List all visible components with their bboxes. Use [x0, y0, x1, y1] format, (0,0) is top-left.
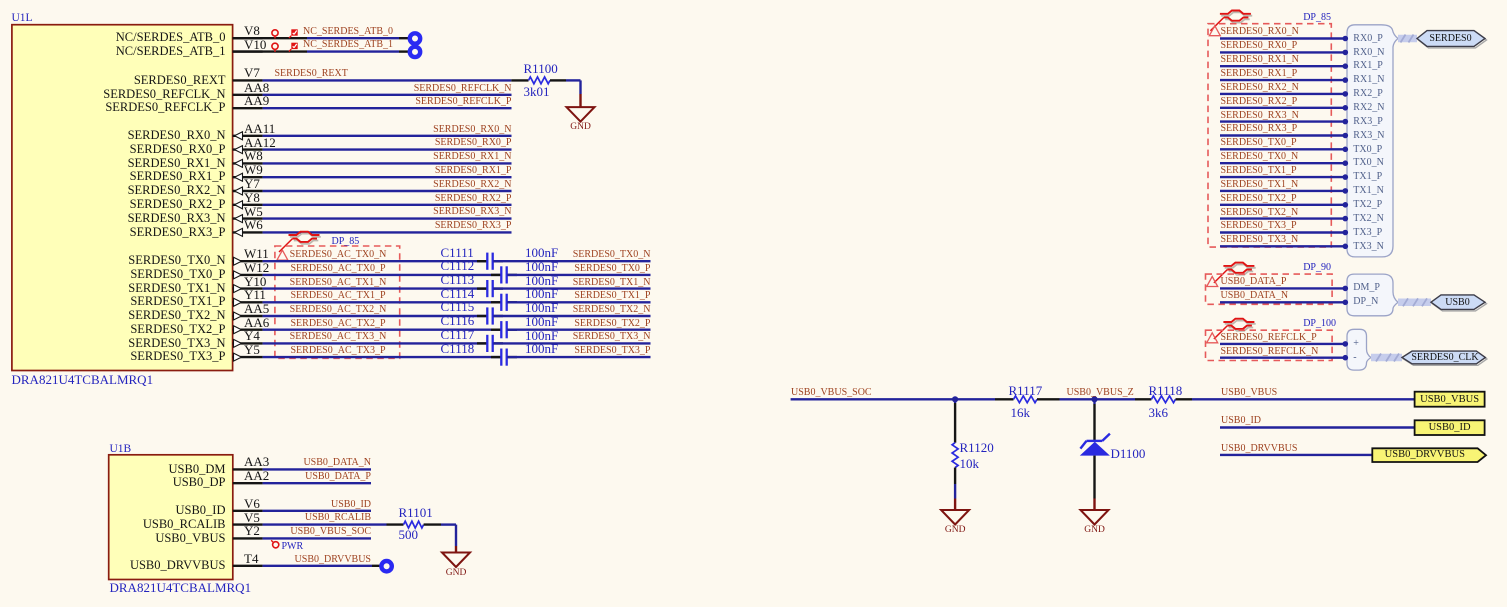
pin label USB0_DM (U1B) — [120, 463, 226, 476]
connector label SERDES0 — [1427, 34, 1474, 44]
wire SERDES0_TX0_N — [493, 260, 650, 262]
ground GND (R1100) — [567, 94, 595, 122]
net label SERDES0_RX3_P — [312, 221, 512, 231]
harness entry RX2_P — [1353, 89, 1382, 99]
harness entry TX1_N — [1353, 186, 1384, 196]
harness entry TX2_N — [1353, 214, 1384, 224]
differential-pair directive icon (DP_90) — [1214, 263, 1256, 283]
pin W12 (SERDES0_TX0_P) of U1L — [233, 271, 263, 279]
net label SERDES0_AC_TX0_P — [290, 264, 387, 274]
designator C1117 — [441, 328, 475, 341]
net label USB0_DATA_N (harness side) — [1221, 291, 1289, 301]
wire USB0_DATA_N — [263, 468, 371, 470]
pin number Y7 (U1L) — [244, 177, 260, 190]
wire SERDES0_RX0_N (to harness) — [1220, 36, 1348, 42]
designator C1112 — [441, 259, 475, 272]
pin number AA2 (U1B) — [244, 469, 269, 482]
pin T4 (USB0_DRVVBUS) of U1B — [233, 565, 263, 567]
pin label USB0_DRVVBUS (U1B) — [120, 559, 226, 572]
wire USB0_VBUS — [1192, 398, 1415, 400]
wire SERDES0_TX3_P (to harness) — [1220, 230, 1348, 236]
wire USB0_VBUS_Z — [1060, 398, 1136, 400]
pin number V6 (U1B) — [244, 497, 260, 510]
port USB0_DRVVBUS — [1372, 448, 1486, 462]
harness entry RX3_P — [1353, 117, 1382, 127]
resistor R1101 — [387, 521, 442, 528]
label GND (R1100) — [570, 123, 591, 133]
pin AA11 (SERDES0_RX0_N) of U1L — [233, 132, 263, 140]
pin label NC/SERDES_ATB_1 (U1L) — [55, 45, 226, 58]
pin AA8 (SERDES0_REFCLK_N) of U1L — [233, 94, 263, 96]
pin label SERDES0_TX3_P (U1L) — [55, 350, 226, 363]
IC U1B body — [109, 455, 233, 580]
wire USB0_VBUS_SOC (U1B) — [263, 537, 371, 539]
pin Y2 (USB0_VBUS) of U1B — [233, 537, 263, 539]
wire NC_SERDES_ATB_1 — [233, 50, 409, 52]
harness entry DP_N — [1353, 297, 1378, 307]
pin Y8 (SERDES0_RX2_P) of U1L — [233, 201, 263, 209]
wire USB0_DATA_N (to harness) — [1220, 300, 1348, 306]
pin label NC/SERDES_ATB_0 (U1L) — [55, 31, 226, 44]
wire USB0_ID (U1B) — [263, 510, 371, 512]
wire SERDES0_RX0_N — [263, 135, 512, 137]
net label SERDES0_TX3_N (harness side) — [1221, 235, 1299, 245]
capacitor C1111 — [477, 253, 503, 270]
parameter label PWR — [282, 542, 304, 552]
wire NC_SERDES_ATB_0 — [233, 37, 409, 39]
pin AA2 (USB0_DP) of U1B — [233, 482, 263, 484]
net label USB0_VBUS_SOC — [791, 388, 872, 398]
blanket box DP_85 (left) — [275, 246, 400, 358]
differential-pair directive icon (left DP_85) — [279, 232, 321, 252]
wire SERDES0_TX1_N (to harness) — [1220, 188, 1348, 194]
wire SERDES0_RX2_N — [263, 190, 512, 192]
pin label SERDES0_RX1_P (U1L) — [55, 170, 226, 183]
directive name DP_85 (left) — [332, 237, 360, 247]
net label SERDES0_TX1_P (harness side) — [1221, 166, 1297, 176]
value 16k (R1117) — [1011, 406, 1031, 419]
pin Y11 (SERDES0_TX1_P) of U1L — [233, 298, 263, 306]
harness entry TX0_N — [1353, 158, 1384, 168]
value 10k (R1120) — [960, 457, 980, 470]
harness entry RX1_N — [1353, 75, 1384, 85]
pin label SERDES0_TX0_P (U1L) — [55, 268, 226, 281]
blanket box DP_85 (right) — [1208, 24, 1331, 247]
designator U1L — [12, 13, 33, 25]
pin number AA12 (U1L) — [244, 136, 276, 149]
wire SERDES0_RX0_P (to harness) — [1220, 50, 1348, 56]
harness entry RX0_N — [1353, 48, 1384, 58]
wire SERDES0_REFCLK_N (to harness) — [1220, 355, 1348, 361]
pin label SERDES0_RX2_P (U1L) — [55, 198, 226, 211]
ground GND (D1100) — [1081, 499, 1109, 525]
differential-pair directive icon (DP_100) — [1214, 319, 1256, 339]
net label USB0_VBUS_SOC (U1B) — [171, 527, 371, 537]
wire SERDES0_AC_TX3_P — [263, 356, 501, 358]
harness connector SERDES0_CLK — [1402, 351, 1487, 365]
designator R1118 — [1149, 384, 1183, 397]
wire R1120 to GND — [954, 484, 956, 499]
no-ERC circle marker on NC_SERDES_ATB_1 — [272, 43, 278, 52]
junction node USB0_VBUS_Z/D1100 — [1091, 396, 1097, 402]
wire SERDES0_RX3_N — [263, 217, 512, 219]
wire SERDES0_TX2_P — [507, 329, 650, 331]
wire SERDES0_RX2_P (to harness) — [1220, 105, 1348, 111]
pin number W12 (U1L) — [244, 261, 269, 274]
designator U1B — [110, 444, 132, 456]
pin AA12 (SERDES0_RX0_P) of U1L — [233, 146, 263, 154]
designator C1115 — [441, 300, 475, 313]
no-connect marker on NC_SERDES_ATB_1 — [410, 47, 420, 57]
net label SERDES0_TX0_N — [451, 250, 651, 260]
net label SERDES0_TX3_N — [451, 332, 651, 342]
pin label SERDES0_REFCLK_N (U1L) — [55, 88, 226, 101]
harness entry TX1_P — [1353, 172, 1382, 182]
net label SERDES0_REFCLK_P (harness side) — [1221, 333, 1317, 343]
IC U1L body — [12, 25, 233, 371]
pin number Y5 (U1L) — [244, 343, 260, 356]
pin AA5 (SERDES0_TX2_N) of U1L — [233, 312, 263, 320]
wire SERDES0_RX3_P (to harness) — [1220, 133, 1348, 139]
designator R1117 — [1009, 384, 1043, 397]
net label SERDES0_REFCLK_N — [312, 84, 512, 94]
wire SERDES0_AC_TX0_N — [263, 260, 487, 262]
capacitor C1118 — [491, 349, 517, 366]
value 100nF (C1114) — [525, 287, 558, 300]
value 3k01 (R1100) — [524, 85, 550, 98]
pin label SERDES0_TX1_N (U1L) — [55, 282, 226, 295]
pin W5 (SERDES0_RX3_N) of U1L — [233, 215, 263, 223]
pin label SERDES0_REFCLK_P (U1L) — [55, 101, 226, 114]
wire SERDES0_REFCLK_P (to harness) — [1220, 341, 1348, 347]
port USB0_ID — [1415, 420, 1485, 435]
wire SERDES0_TX0_N (to harness) — [1220, 160, 1348, 166]
wire SERDES0_RX1_P — [263, 176, 512, 178]
pin label SERDES0_RX3_N (U1L) — [55, 212, 226, 225]
net label NC_SERDES_ATB_0 — [303, 27, 393, 37]
pin label SERDES0_RX0_N (U1L) — [55, 129, 226, 142]
pin label SERDES0_TX1_P (U1L) — [55, 295, 226, 308]
capacitor C1115 — [477, 307, 503, 324]
wire USB0_ID — [1220, 426, 1415, 428]
label GND (D1100) — [1084, 526, 1105, 536]
label GND (R1120) — [945, 526, 966, 536]
pin label USB0_VBUS (U1B) — [120, 532, 226, 545]
net label SERDES0_TX0_N (harness side) — [1221, 152, 1299, 162]
wire SERDES0_AC_TX2_N — [263, 315, 487, 317]
wire SERDES0_TX2_P (to harness) — [1220, 202, 1348, 208]
harness entry RX3_N — [1353, 131, 1384, 141]
net label SERDES0_RX0_P — [312, 138, 512, 148]
harness entry - — [1353, 353, 1356, 363]
pin AA6 (SERDES0_TX2_P) of U1L — [233, 326, 263, 334]
pin label SERDES0_RX1_N (U1L) — [55, 157, 226, 170]
pin V10 (NC/SERDES_ATB_1) of U1L — [233, 50, 263, 52]
net label SERDES0_TX0_P (harness side) — [1221, 138, 1297, 148]
pin W8 (SERDES0_RX1_N) of U1L — [233, 159, 263, 167]
diode D1100 (zener) — [1080, 399, 1110, 498]
signal harness body (SERDES0_CLK) — [1347, 329, 1371, 370]
wire SERDES0_TX0_P (to harness) — [1220, 147, 1348, 153]
wire SERDES0_AC_TX1_P — [263, 301, 501, 303]
wire SERDES0_TX1_P (to harness) — [1220, 174, 1348, 180]
net label USB0_ID — [1221, 416, 1261, 426]
net label SERDES0_AC_TX1_N — [290, 278, 387, 288]
no-connect marker on NC_SERDES_ATB_0 — [410, 33, 420, 43]
pin Y10 (SERDES0_TX1_N) of U1L — [233, 285, 263, 293]
connector label USB0 — [1441, 298, 1474, 308]
triangle marker DP_85 (left) — [277, 250, 288, 260]
pin number Y4 (U1L) — [244, 329, 260, 342]
net label SERDES0_TX1_P — [451, 291, 651, 301]
wire SERDES0_AC_TX3_N — [263, 342, 487, 344]
value 100nF (C1117) — [525, 329, 558, 342]
pin number AA5 (U1L) — [244, 302, 269, 315]
net label USB0_VBUS_Z — [1067, 388, 1134, 398]
triangle marker DP_85 (right) — [1209, 26, 1220, 36]
net label SERDES0_TX2_P — [451, 319, 651, 329]
value 100nF (C1112) — [525, 260, 558, 273]
net label SERDES0_AC_TX0_N — [290, 250, 387, 260]
net label SERDES0_REFCLK_N (harness side) — [1221, 347, 1319, 357]
pin V5 (USB0_RCALIB) of U1B — [233, 523, 263, 525]
pin label SERDES0_RX0_P (U1L) — [55, 143, 226, 156]
harness entry RX1_P — [1353, 61, 1382, 71]
pin label SERDES0_TX2_N (U1L) — [55, 309, 226, 322]
no-ERC circle marker on NC_SERDES_ATB_0 — [272, 30, 278, 39]
resistor R1117 — [995, 396, 1060, 403]
triangle marker DP_100 — [1207, 333, 1218, 343]
pin Y7 (SERDES0_RX2_N) of U1L — [233, 187, 263, 195]
capacitor C1113 — [477, 280, 503, 297]
net label SERDES0_REFCLK_P — [312, 97, 512, 107]
wire SERDES0_TX1_N — [493, 287, 650, 289]
designator C1111 — [441, 246, 474, 259]
pin number V5 (U1B) — [244, 511, 260, 524]
value 100nF (C1111) — [525, 246, 558, 259]
net label SERDES0_RX2_N — [312, 180, 512, 190]
label GND (R1101) — [446, 569, 467, 579]
port label USB0_ID — [1415, 423, 1485, 434]
pin number Y11 (U1L) — [244, 288, 266, 301]
wire R1100 to GND — [566, 80, 581, 94]
net label SERDES0_RX3_P (harness side) — [1221, 124, 1298, 134]
harness entry RX0_P — [1353, 34, 1382, 44]
pin number AA6 (U1L) — [244, 316, 269, 329]
junction node USB0_VBUS_SOC/R1120 — [952, 396, 958, 402]
wire SERDES0_RX3_N (to harness) — [1220, 119, 1348, 125]
pin label SERDES0_TX3_N (U1L) — [55, 337, 226, 350]
signal harness body (SERDES0) — [1347, 25, 1398, 257]
wire SERDES0_TX3_N (to harness) — [1220, 244, 1348, 250]
directive name DP_85 (right) — [1303, 13, 1331, 23]
value 100nF (C1115) — [525, 301, 558, 314]
pin W6 (SERDES0_RX3_P) of U1L — [233, 228, 263, 236]
pin number W6 (U1L) — [244, 218, 263, 231]
harness cable (SERDES0) — [1398, 35, 1417, 43]
value 3k6 (R1118) — [1149, 406, 1169, 419]
pin AA3 (USB0_DM) of U1B — [233, 468, 263, 470]
wire USB0_DRVVBUS — [1220, 454, 1372, 456]
value 100nF (C1113) — [525, 274, 558, 287]
wire SERDES0_AC_TX2_P — [263, 329, 501, 331]
pin AA9 (SERDES0_REFCLK_P) of U1L — [233, 107, 263, 109]
net label SERDES0_AC_TX1_P — [290, 291, 387, 301]
harness cable (SERDES0_CLK) — [1371, 354, 1402, 362]
net label USB0_DATA_P — [171, 472, 371, 482]
net label SERDES0_RX3_N (harness side) — [1221, 111, 1299, 121]
no-ERC checkbox marker on NC_SERDES_ATB_1 — [289, 43, 298, 52]
harness entry + — [1353, 339, 1359, 349]
directive name DP_90 (USB0) — [1303, 263, 1331, 273]
harness entry TX0_P — [1353, 145, 1382, 155]
net label SERDES0_TX0_P — [451, 264, 651, 274]
ground GND (R1120) — [941, 499, 969, 525]
wire USB0_DATA_P (to harness) — [1220, 286, 1348, 292]
harness entry RX2_N — [1353, 103, 1384, 113]
harness entry TX3_P — [1353, 228, 1382, 238]
harness connector USB0 — [1431, 295, 1487, 311]
designator D1100 — [1111, 447, 1146, 460]
net label SERDES0_TX1_N (harness side) — [1221, 180, 1299, 190]
resistor R1120 — [952, 399, 958, 484]
pin number Y8 (U1L) — [244, 191, 260, 204]
pin number W9 (U1L) — [244, 163, 263, 176]
wire SERDES0_REFCLK_N — [263, 94, 512, 96]
pin number W11 (U1L) — [244, 247, 269, 260]
directive name DP_100 — [1303, 319, 1336, 329]
net label SERDES0_RX2_N (harness side) — [1221, 83, 1299, 93]
net label USB0_DRVVBUS (U1B) — [171, 555, 371, 565]
value 100nF (C1116) — [525, 315, 558, 328]
net label USB0_RCALIB — [171, 513, 371, 523]
capacitor C1116 — [491, 321, 517, 338]
wire SERDES0_TX2_N (to harness) — [1220, 216, 1348, 222]
wire USB0_DRVVBUS (U1B) — [263, 565, 381, 567]
wire SERDES0_TX2_N — [493, 315, 650, 317]
pin Y5 (SERDES0_TX3_P) of U1L — [233, 353, 263, 361]
pin label SERDES0_REXT (U1L) — [55, 74, 226, 87]
net label SERDES0_TX2_N (harness side) — [1221, 208, 1299, 218]
value 500 (R1101) — [399, 528, 419, 541]
wire SERDES0_TX0_P — [507, 274, 650, 276]
net label SERDES0_RX0_N — [312, 125, 512, 135]
port USB0_VBUS — [1415, 392, 1485, 407]
designator C1118 — [441, 342, 475, 355]
wire SERDES0_AC_TX1_N — [263, 287, 487, 289]
capacitor C1112 — [491, 266, 517, 283]
wire SERDES0_RX1_P (to harness) — [1220, 77, 1348, 83]
net label SERDES0_RX0_N (harness side) — [1221, 27, 1299, 37]
port label USB0_VBUS — [1415, 395, 1485, 406]
PWR parameter marker — [271, 540, 279, 548]
net label SERDES0_TX3_P (harness side) — [1221, 221, 1297, 231]
pin label USB0_DP (U1B) — [120, 476, 226, 489]
wire SERDES0_TX1_P — [507, 301, 650, 303]
triangle marker DP_90 — [1207, 277, 1218, 287]
pin W11 (SERDES0_TX0_N) of U1L — [233, 257, 263, 265]
part number DRA821U4TCBALMRQ1 (U1B) — [110, 581, 252, 594]
net label SERDES0_AC_TX2_P — [290, 319, 387, 329]
wire USB0_DATA_P — [263, 482, 371, 484]
pin number V7 (U1L) — [244, 66, 260, 79]
resistor R1100 — [511, 77, 566, 84]
port label USB0_DRVVBUS — [1372, 450, 1477, 461]
wire SERDES0_RX1_N — [263, 162, 512, 164]
capacitor C1117 — [477, 335, 503, 352]
pin number W8 (U1L) — [244, 149, 263, 162]
differential-pair directive icon (DP_85 right) — [1210, 11, 1252, 31]
designator R1120 — [960, 441, 994, 454]
wire SERDES0_TX3_P — [507, 356, 650, 358]
wire R1101 to GND — [441, 525, 456, 546]
pin W9 (SERDES0_RX1_P) of U1L — [233, 173, 263, 181]
wire SERDES0_REFCLK_P — [263, 107, 512, 109]
pin number V8 (U1L) — [244, 24, 260, 37]
pin number AA8 (U1L) — [244, 81, 269, 94]
wire SERDES0_RX3_P — [263, 231, 512, 233]
net label SERDES0_RX3_N — [312, 207, 512, 217]
net label SERDES0_TX2_P (harness side) — [1221, 194, 1297, 204]
net label USB0_ID (U1B) — [171, 500, 371, 510]
pin label SERDES0_RX2_N (U1L) — [55, 184, 226, 197]
net label SERDES0_RX1_N — [312, 152, 512, 162]
designator R1101 — [399, 506, 433, 519]
connector label SERDES0_CLK — [1410, 353, 1480, 363]
net label SERDES0_AC_TX3_P — [290, 346, 387, 356]
net label SERDES0_RX1_P — [312, 166, 512, 176]
pin number AA11 (U1L) — [244, 122, 275, 135]
pin label USB0_ID (U1B) — [120, 504, 226, 517]
pin V8 (NC/SERDES_ATB_0) of U1L — [233, 37, 263, 39]
ground GND (R1101) — [442, 546, 470, 567]
blanket box DP_100 — [1206, 330, 1333, 360]
wire SERDES0_RX1_N (to harness) — [1220, 63, 1348, 69]
net label SERDES0_TX3_P — [451, 346, 651, 356]
designator C1116 — [441, 314, 475, 327]
blanket box DP_90 — [1206, 274, 1333, 304]
wire SERDES0_AC_TX0_P — [263, 274, 501, 276]
wire SERDES0_RX0_P — [263, 148, 512, 150]
pin number Y10 (U1L) — [244, 275, 266, 288]
wire USB0_RCALIB — [263, 523, 387, 525]
net label SERDES0_AC_TX2_N — [290, 305, 387, 315]
harness entry TX3_N — [1353, 242, 1384, 252]
harness entry TX2_P — [1353, 200, 1382, 210]
wire SERDES0_RX2_N (to harness) — [1220, 91, 1348, 97]
value 100nF (C1118) — [525, 342, 558, 355]
net label SERDES0_REXT — [275, 69, 348, 79]
net label USB0_DATA_N — [171, 458, 371, 468]
wire SERDES0_RX2_P — [263, 204, 512, 206]
pin label SERDES0_TX2_P (U1L) — [55, 323, 226, 336]
harness connector SERDES0 — [1417, 31, 1487, 48]
pin number AA9 (U1L) — [244, 94, 269, 107]
pin Y4 (SERDES0_TX3_N) of U1L — [233, 339, 263, 347]
pin number Y2 (U1B) — [244, 524, 260, 537]
harness cable (USB0) — [1398, 298, 1431, 306]
net label SERDES0_TX2_N — [451, 305, 651, 315]
harness entry DM_P — [1353, 283, 1380, 293]
capacitor C1114 — [491, 294, 517, 311]
wire USB0_VBUS_SOC — [791, 398, 995, 400]
pin number W5 (U1L) — [244, 205, 263, 218]
wire SERDES0_REXT — [263, 79, 512, 81]
pin number AA3 (U1B) — [244, 455, 269, 468]
net label SERDES0_RX0_P (harness side) — [1221, 41, 1298, 51]
pin number T4 (U1B) — [244, 552, 258, 565]
signal harness body (USB0) — [1347, 274, 1398, 316]
